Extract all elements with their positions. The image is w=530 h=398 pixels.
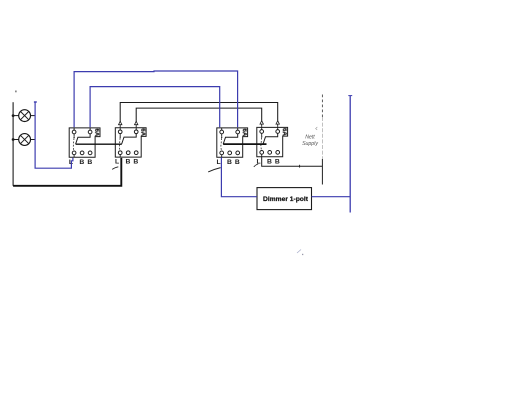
wire: lamp L2 right stub	[30, 139, 35, 141]
wire: strapping SW1 common to SW2 common	[76, 143, 122, 145]
junction at lamp L2	[12, 138, 15, 141]
wire: bottom neutral run to switch SW2	[13, 158, 121, 186]
wire: SW4.L down to supply node	[262, 157, 323, 166]
blue wire: inner loop SW1.TR to SW3.TL	[90, 87, 220, 128]
svg-text:Nett: Nett	[305, 135, 315, 141]
hook mark under SW2	[112, 167, 118, 170]
stub into SW4.TR	[277, 124, 279, 127]
svg-text:Dimmer 1-polt: Dimmer 1-polt	[263, 196, 309, 203]
wire: lower black strap SW2.TR to SW4.TL	[136, 108, 262, 124]
stub into SW4.TL	[261, 124, 263, 127]
switch SW1	[69, 128, 100, 166]
blue wire: outer loop SW1.TL to SW3.TR	[74, 71, 238, 127]
dimmer box	[257, 188, 312, 210]
supply dashed line	[321, 95, 323, 118]
wire: lamp L1 right stub	[30, 115, 35, 117]
hook mark under SW4	[254, 164, 258, 167]
connector triangle SW2.TR	[135, 121, 138, 124]
stub into SW2.TL	[119, 125, 121, 128]
faint stray scribble	[297, 250, 301, 254]
blue wire: SW3.L down to dimmer	[221, 157, 257, 196]
blue wire: dimmer to right rail	[312, 196, 351, 198]
stub into SW2.TR	[135, 125, 137, 128]
switch SW4	[257, 127, 288, 165]
junction at lamp L1	[12, 114, 15, 117]
connector triangle SW4.TR	[276, 121, 279, 124]
supply line faint middle	[321, 117, 323, 159]
wire: lamp L2 left stub	[13, 139, 19, 141]
svg-text:Supply: Supply	[302, 141, 318, 147]
faint check mark near supply line	[316, 127, 318, 130]
lamp L1	[19, 110, 31, 122]
blue rail top tick	[348, 95, 352, 97]
wire: upper black strap SW2.TL to SW4.TR	[120, 103, 278, 125]
blue wire: lamp rail down to SW1.L	[35, 102, 73, 169]
connector triangle SW2.TL	[119, 121, 122, 124]
switch SW3	[217, 128, 248, 166]
supply line solid lower part	[321, 159, 323, 185]
junction tick on SW4.L run	[299, 165, 301, 168]
switch SW2	[115, 128, 146, 166]
wire: strapping SW3 common to SW4 common	[223, 143, 266, 145]
stray ink dot	[15, 91, 16, 93]
blue rail top tick	[34, 101, 37, 103]
connector triangle SW4.TL	[260, 121, 263, 124]
lamp L2	[19, 134, 31, 146]
wire: lamp L1 left stub	[13, 115, 19, 117]
blue right rail	[349, 96, 351, 213]
lamp feed rail (left, black)	[12, 102, 14, 186]
hook mark under SW3	[208, 168, 220, 172]
